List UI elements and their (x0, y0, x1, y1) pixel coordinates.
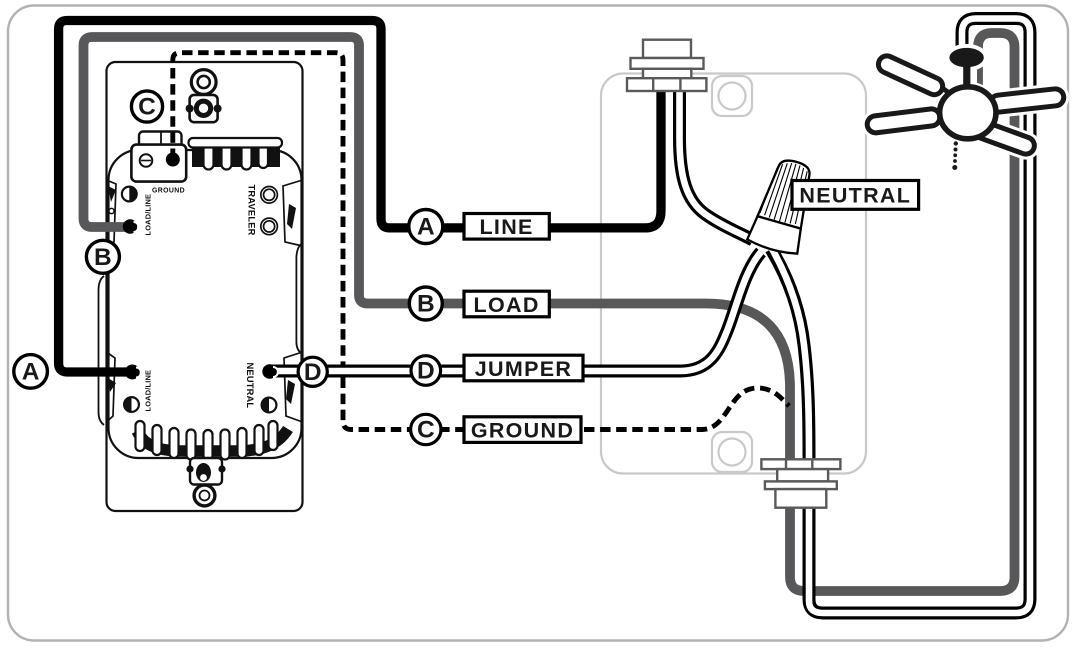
svg-text:D: D (304, 359, 322, 386)
svg-text:NEUTRAL: NEUTRAL (245, 363, 255, 409)
svg-text:TRAVELER: TRAVELER (246, 185, 256, 236)
svg-text:A: A (417, 214, 435, 241)
svg-text:LINE: LINE (480, 215, 534, 239)
svg-text:LOAD: LOAD (474, 293, 540, 317)
svg-text:LOAD/LINE: LOAD/LINE (144, 194, 153, 236)
svg-text:GROUND: GROUND (152, 187, 185, 194)
svg-text:C: C (417, 417, 435, 444)
svg-text:JUMPER: JUMPER (475, 357, 572, 381)
svg-text:LOAD/LINE: LOAD/LINE (144, 370, 153, 412)
svg-text:GROUND: GROUND (471, 418, 574, 442)
svg-text:NEUTRAL: NEUTRAL (799, 184, 911, 208)
svg-text:A: A (22, 359, 40, 386)
svg-text:D: D (417, 358, 435, 385)
svg-text:B: B (94, 244, 112, 271)
svg-text:C: C (138, 94, 156, 121)
svg-text:B: B (417, 291, 435, 318)
